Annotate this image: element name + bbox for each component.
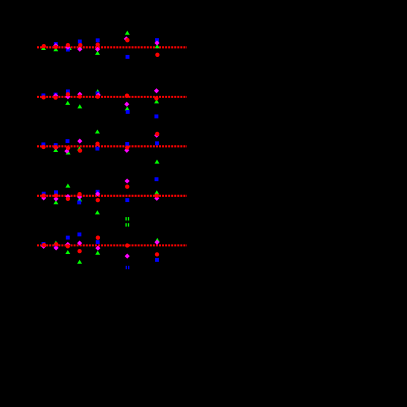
panel 1 reference line (red dashed)	[37, 46, 187, 48]
panel 5 cluster 4 at x~79.5: green-triangle+blue-square+magenta-diamond+red-circle	[77, 232, 82, 263]
panel 5 cluster 6 at x~127.3: blue-double-bar+magenta-diamond+red-circle	[125, 243, 130, 269]
panel 2 cluster 4 at x~79.8: green-triangle+magenta-diamond+red-circle	[77, 92, 82, 109]
panel 5 cluster 1 at x~43.7: blue-square+magenta-diamond+red-circle	[41, 242, 46, 249]
panel 4 cluster 4 at x~79.5: green-triangle+blue-square+magenta-diamond+red-circle	[77, 192, 82, 204]
panel 5 reference line (red dashed)	[37, 244, 187, 246]
panel 3 cluster 6 at x~127.1: blue-square+magenta-diamond+red-circle	[124, 142, 129, 153]
panel 3 cluster 3 at x~67.7: green-triangle+blue-square+magenta-diamond+red-circle	[64, 139, 70, 154]
panel 3 cluster 4 at x~79.8: green-triangle+magenta-diamond+red-circle	[77, 139, 82, 153]
panel 2 cluster 3 at x~67.9: green-triangle+blue-square+magenta-diamond+red-circle	[65, 89, 70, 104]
panel 4 cluster 2 at x~56.0: green-triangle+blue-square+magenta-diamond+red-circle	[53, 190, 58, 204]
panel 1 cluster 2 at x~55.8: green-triangle+blue-square+magenta-diamond+red-circle	[53, 42, 58, 51]
panel 5 cluster 7 at x~157.1: green-triangle+blue-square+magenta-diamond+red-circle	[154, 238, 159, 262]
panel 2 cluster 7 at x~156.5: green-triangle+blue-square+magenta-diamond+red-circle	[154, 88, 159, 118]
panel 1 cluster 7 at x~157.2: green-triangle+blue-square+magenta-diamond+red-circle	[154, 38, 159, 57]
panel 5 cluster 5 at x~97.8: green-triangle+blue-square+magenta-diamond+red-circle	[95, 236, 100, 255]
panel 3 cluster 7 at x~157.0: green-triangle+blue-square+magenta-diamond+red-circle	[154, 132, 159, 164]
panel 4 cluster 5 at x~97.6: green-triangle+blue-square+magenta-diamond+red-circle	[95, 190, 100, 215]
panel 2 reference line (red dashed)	[37, 96, 187, 98]
panel 3 cluster 2 at x~55.8: green-triangle+blue-square+magenta-diamond+red-circle	[53, 143, 58, 152]
panel 1 cluster 6 at x~127.1: green-triangle+blue-square+magenta-diamond+red-circle	[124, 31, 130, 59]
panel 1 cluster 3 at x~68.2: green-triangle+blue-square+magenta-diamond+red-circle	[65, 43, 71, 52]
panel 3 reference line (red dashed)	[37, 145, 187, 147]
panel 4 cluster 7 at x~156.7: green-triangle+blue-square+magenta-diamond+red-circle	[154, 177, 159, 201]
panel 4 reference line (red dashed)	[37, 195, 187, 197]
panel 5 cluster 2 at x~56.0: green-triangle+blue-square+magenta-diamond+red-circle	[53, 241, 58, 251]
panel 4 cluster 1 at x~43.7: blue-square+magenta-diamond+red-circle	[41, 192, 46, 201]
panel 1 cluster 1 at x~43.6: green-triangle+red-circle	[41, 44, 46, 50]
panel 1 cluster 5 at x~97.6: green-triangle+blue-square+magenta-diamond+red-circle	[95, 38, 100, 55]
panel 2 cluster 6 at x~127.2: green-triangle+blue-square+magenta-diamond+red-circle	[124, 94, 129, 114]
panel 2 cluster 5 at x~97.8: green-triangle+blue-square+magenta-diamond+red-circle	[95, 89, 101, 99]
panel 5 cluster 3 at x~67.8: green-triangle+blue-square+magenta-diamond+red-circle	[65, 236, 70, 254]
panel 2 cluster 1 at x~43.5: blue-square+red-circle	[41, 93, 45, 99]
panel 4 cluster 6 at x~127.2: green-double-bar+green-double-bar+blue-square+magenta-diamond+red-circle	[125, 178, 130, 226]
panel 3 cluster 5 at x~97.4: green-triangle+blue-square+red-circle	[95, 129, 100, 150]
panel 2 cluster 2 at x~55.6: blue-square+magenta-diamond+red-circle	[53, 93, 58, 100]
panel 4 cluster 3 at x~67.9: green-triangle+magenta-diamond+red-circle	[65, 184, 70, 202]
panel 3 cluster 1 at x~43.5: blue-square+red-circle	[41, 142, 45, 149]
panel 1 cluster 4 at x~80.0: green-triangle+blue-square+magenta-diamond+red-circle	[77, 40, 82, 52]
